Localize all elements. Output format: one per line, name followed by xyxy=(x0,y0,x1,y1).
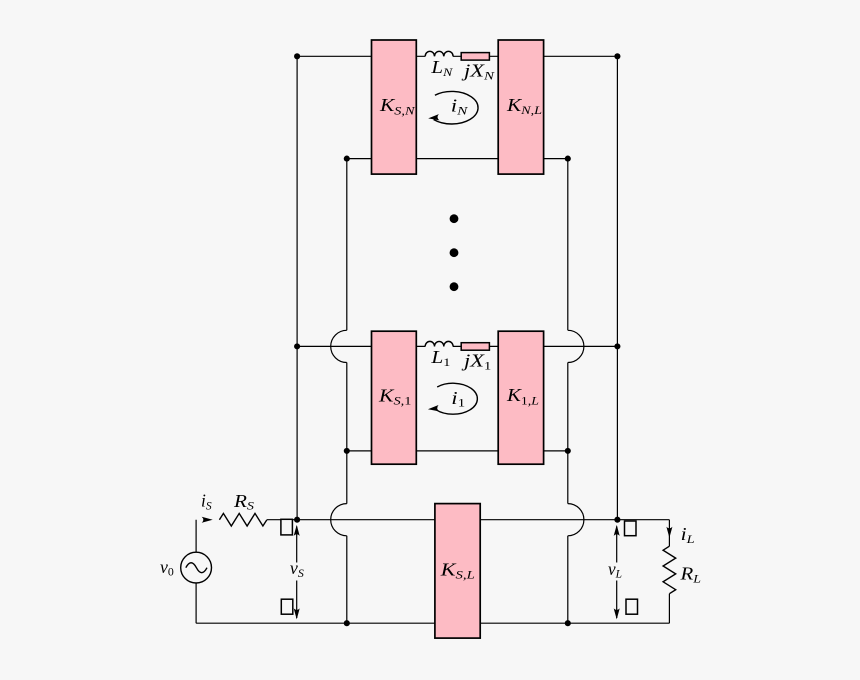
voltage arrow v_L xyxy=(616,527,618,619)
wire bottom-row bottom xyxy=(196,622,669,624)
inductor L_N xyxy=(425,51,453,56)
node rowN bottom right xyxy=(565,156,571,162)
current arrow i_L xyxy=(666,527,672,538)
node row1 bottom left xyxy=(344,448,350,454)
node load top xyxy=(614,517,620,523)
wire outer-right rail xyxy=(616,56,618,519)
node rowN top left xyxy=(294,53,300,59)
loop current arrow i_N xyxy=(428,91,478,124)
coupling block K_S,N xyxy=(372,40,417,174)
coupling block K_S,L xyxy=(435,504,480,638)
wire load branch vertical xyxy=(668,520,670,624)
node row1 bottom right xyxy=(565,448,571,454)
node row1 top left xyxy=(294,343,300,349)
coupling block K_S,1 xyxy=(372,331,417,464)
wire rowN top xyxy=(297,55,617,57)
wire source branch vertical xyxy=(195,520,197,624)
crossover hop left at row1 xyxy=(331,330,347,362)
resistor R_L xyxy=(663,546,676,594)
wire rowN bottom xyxy=(347,158,568,160)
port terminal load top xyxy=(625,521,637,536)
port terminal source top xyxy=(281,519,293,535)
source v_0 xyxy=(181,552,212,583)
node bottom left xyxy=(344,620,350,626)
wire inner-left rail xyxy=(346,159,348,624)
node rowN bottom left xyxy=(344,156,350,162)
reactance box jX_N xyxy=(461,53,489,61)
node row1 top right xyxy=(614,343,620,349)
port terminal source bottom xyxy=(281,599,293,614)
node rowN top right xyxy=(614,53,620,59)
wire inner-right rail xyxy=(567,159,569,624)
coupling block K_1,L xyxy=(498,331,543,464)
current arrow i_S xyxy=(202,517,213,523)
loop current arrow i_1 xyxy=(428,383,478,414)
wire outer-left rail xyxy=(296,56,298,519)
inductor L_1 xyxy=(425,341,453,346)
wire bottom-row top xyxy=(267,519,669,521)
resistor R_S xyxy=(219,513,266,526)
crossover hop right at row1 xyxy=(568,330,584,362)
voltage arrow v_S xyxy=(296,527,298,619)
node bottom right xyxy=(565,620,571,626)
crossover hop left at bottom row xyxy=(331,504,347,536)
crossover hop right at bottom row xyxy=(568,504,584,536)
port terminal load bottom xyxy=(626,599,638,614)
wire row1 bottom xyxy=(347,450,568,452)
ellipsis dots xyxy=(450,214,459,291)
coupling block K_N,L xyxy=(498,40,543,174)
wire row1 top xyxy=(297,345,617,347)
node source top xyxy=(294,517,300,523)
reactance box jX_1 xyxy=(461,343,489,351)
